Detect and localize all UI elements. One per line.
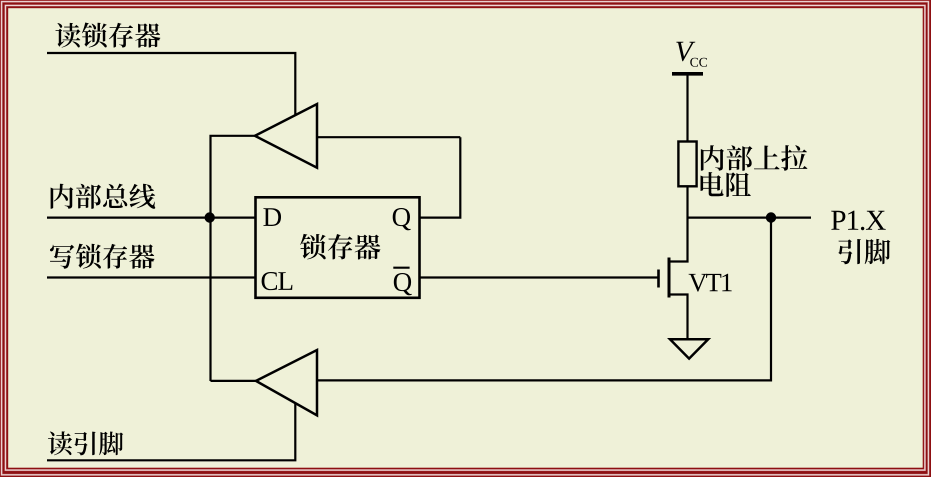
pin label D (263, 208, 281, 226)
pin label Qbar (393, 268, 411, 296)
wire Q to buffer U2 (420, 137, 461, 217)
transistor VT1 source path (669, 295, 688, 340)
latch U1 box (256, 197, 420, 297)
wire pin to buffer U3 input (318, 218, 771, 381)
pin label CL (262, 272, 293, 290)
wire buffer U2 output to bus vertical (211, 136, 257, 381)
wire resistor to drain (669, 186, 688, 262)
wire buffer U3 output (211, 380, 257, 382)
buffer U2 (read latch) (255, 104, 317, 168)
pin label Q (393, 208, 411, 230)
transistor VT1 channel bar (668, 258, 671, 298)
label VT1 (689, 274, 732, 292)
node junction bus (205, 212, 215, 222)
wire buffer U2 input (318, 136, 460, 138)
wire internal bus (47, 217, 256, 219)
power VCC bar (672, 72, 703, 76)
label 读锁存器 (read latch) (55, 23, 160, 48)
transistor VT1 gate bar (657, 270, 660, 288)
label 锁存器 (latch) (300, 234, 380, 260)
power VCC label (676, 42, 707, 67)
buffer U3 (read pin) (256, 350, 317, 415)
wire buffer U3 control to read-pin line (47, 403, 295, 460)
node junction pin (766, 212, 776, 222)
label 读引脚 (read pin) (48, 431, 123, 455)
wire read-latch control (47, 53, 295, 116)
ground symbol (670, 339, 708, 358)
wire VCC to resistor (686, 75, 688, 141)
wire write-latch CL (47, 276, 256, 278)
wire pin node line (688, 217, 812, 219)
label 内部总线 (internal bus) (51, 184, 156, 209)
label 内部上拉 (internal pull-up) (701, 145, 808, 171)
wire Qbar to gate (420, 276, 659, 278)
label P1.X (831, 211, 885, 231)
label 写锁存器 (write latch) (50, 244, 155, 269)
resistor R pull-up (678, 142, 696, 187)
label 引脚 (pin) (838, 239, 890, 264)
label 电阻 (resistor) (701, 172, 751, 197)
